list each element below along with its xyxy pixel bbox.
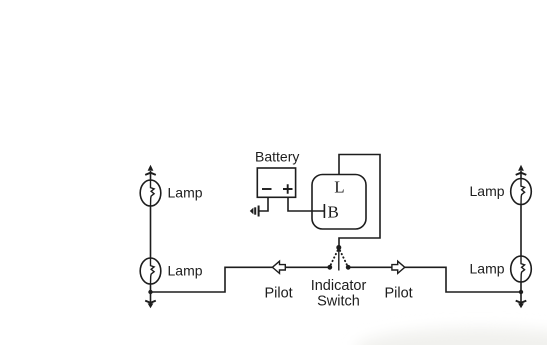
- wire: rear-left lamp to ground node: [150, 284, 152, 303]
- svg-text:Lamp: Lamp: [470, 261, 505, 277]
- battery plus symbol: [283, 184, 293, 194]
- wire: between right lamps: [520, 205, 522, 257]
- node arrow up (left column top): [148, 165, 154, 171]
- filament of rear-left lamp: [151, 258, 155, 284]
- svg-text:Indicator: Indicator: [311, 278, 367, 294]
- switch throw to right contact (dotted): [340, 251, 347, 266]
- wire: left bus from lamp node to pilot arrow: [151, 267, 273, 292]
- battery minus symbol: [262, 188, 272, 190]
- terminal bar B: [323, 204, 325, 218]
- svg-text:L: L: [334, 178, 344, 197]
- node: right contact: [346, 265, 351, 270]
- wire: left lamp column top stub: [150, 171, 152, 181]
- switch throw to left contact (dotted): [331, 251, 338, 266]
- wire: right lamp column top stub: [520, 171, 522, 179]
- wire: right bus from pilot arrow to rear-right lamp node: [405, 267, 522, 292]
- node: rear-right lamp junction: [519, 290, 523, 294]
- svg-text:Lamp: Lamp: [168, 185, 203, 201]
- svg-text:Battery: Battery: [255, 149, 299, 165]
- lamp (front left): [140, 180, 161, 206]
- filament of front-right lamp: [521, 179, 525, 205]
- faint background smudge bottom right: [355, 328, 547, 345]
- wire: between left lamps: [150, 206, 152, 258]
- wire: right bus from switch contact to pilot arrow: [348, 266, 392, 268]
- wire: battery minus to ground: [259, 197, 269, 211]
- filament of rear-right lamp: [521, 256, 525, 282]
- wire: rear-right lamp to ground node: [520, 282, 522, 303]
- ground (battery, left-pointing arrow): [250, 206, 260, 217]
- lamp (front right): [511, 179, 532, 205]
- flasher unit body: [312, 175, 366, 230]
- lamp (rear right): [511, 256, 532, 282]
- filament of front-left lamp: [151, 180, 155, 206]
- wire: battery plus to flasher B terminal: [288, 197, 324, 211]
- svg-text:B: B: [328, 203, 339, 222]
- wire: left bus from pilot arrow to switch contact: [285, 266, 330, 268]
- indicator switch: common node: [336, 245, 341, 250]
- svg-text:Lamp: Lamp: [168, 263, 203, 279]
- lamp (rear left): [140, 258, 161, 284]
- svg-text:Pilot: Pilot: [265, 285, 293, 301]
- svg-text:Switch: Switch: [317, 294, 360, 310]
- node arrow up (right column top): [518, 165, 524, 171]
- pilot arrow right (hollow, pointing right): [392, 261, 405, 273]
- pilot arrow left (hollow, pointing left): [272, 261, 285, 273]
- ground (right, down arrow): [516, 301, 527, 303]
- svg-text:Pilot: Pilot: [385, 285, 413, 301]
- ground (left, down arrow): [145, 301, 156, 303]
- svg-text:Lamp: Lamp: [470, 183, 505, 199]
- battery: [257, 168, 295, 197]
- switch lever (solid): [338, 249, 340, 271]
- node: left contact: [327, 265, 332, 270]
- wire: flasher L terminal loop to switch: [339, 155, 380, 248]
- node: rear-left lamp junction: [148, 290, 152, 294]
